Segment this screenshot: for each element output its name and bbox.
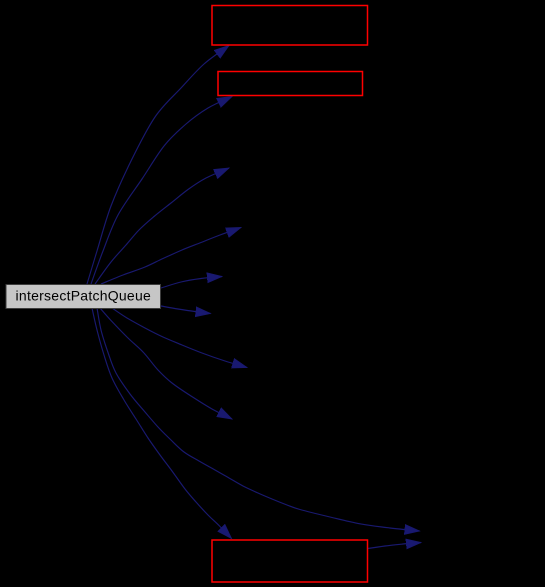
edge E10: intersectPatchQueue to hidden right node (97, 308, 420, 531)
node 1: top red box (transparent label) (212, 6, 368, 46)
edge E9: intersectPatchQueue to bottom box (92, 308, 232, 539)
edge E7: intersectPatchQueue to hidden node 7 (112, 308, 247, 368)
edge E8: intersectPatchQueue to hidden node 8 (100, 308, 232, 419)
edge E4: intersectPatchQueue to hidden node 4 (101, 228, 241, 285)
node 2: second red box (transparent label) (218, 72, 363, 96)
edge E6: intersectPatchQueue to hidden node 6 (161, 306, 211, 314)
node 9: bottom red box (transparent label) (212, 540, 368, 582)
edge E2: intersectPatchQueue to second box (91, 97, 232, 285)
node: intersectPatchQueue (current function, grey filled) (6, 285, 161, 309)
edge E5: intersectPatchQueue to hidden node 5 (161, 277, 222, 289)
edge E3: intersectPatchQueue to hidden node 3 (95, 168, 229, 284)
edge E1: intersectPatchQueue to top box (87, 46, 229, 285)
svg-text:intersectPatchQueue: intersectPatchQueue (16, 288, 152, 304)
edge E11: bottom box to hidden right node (368, 543, 421, 549)
